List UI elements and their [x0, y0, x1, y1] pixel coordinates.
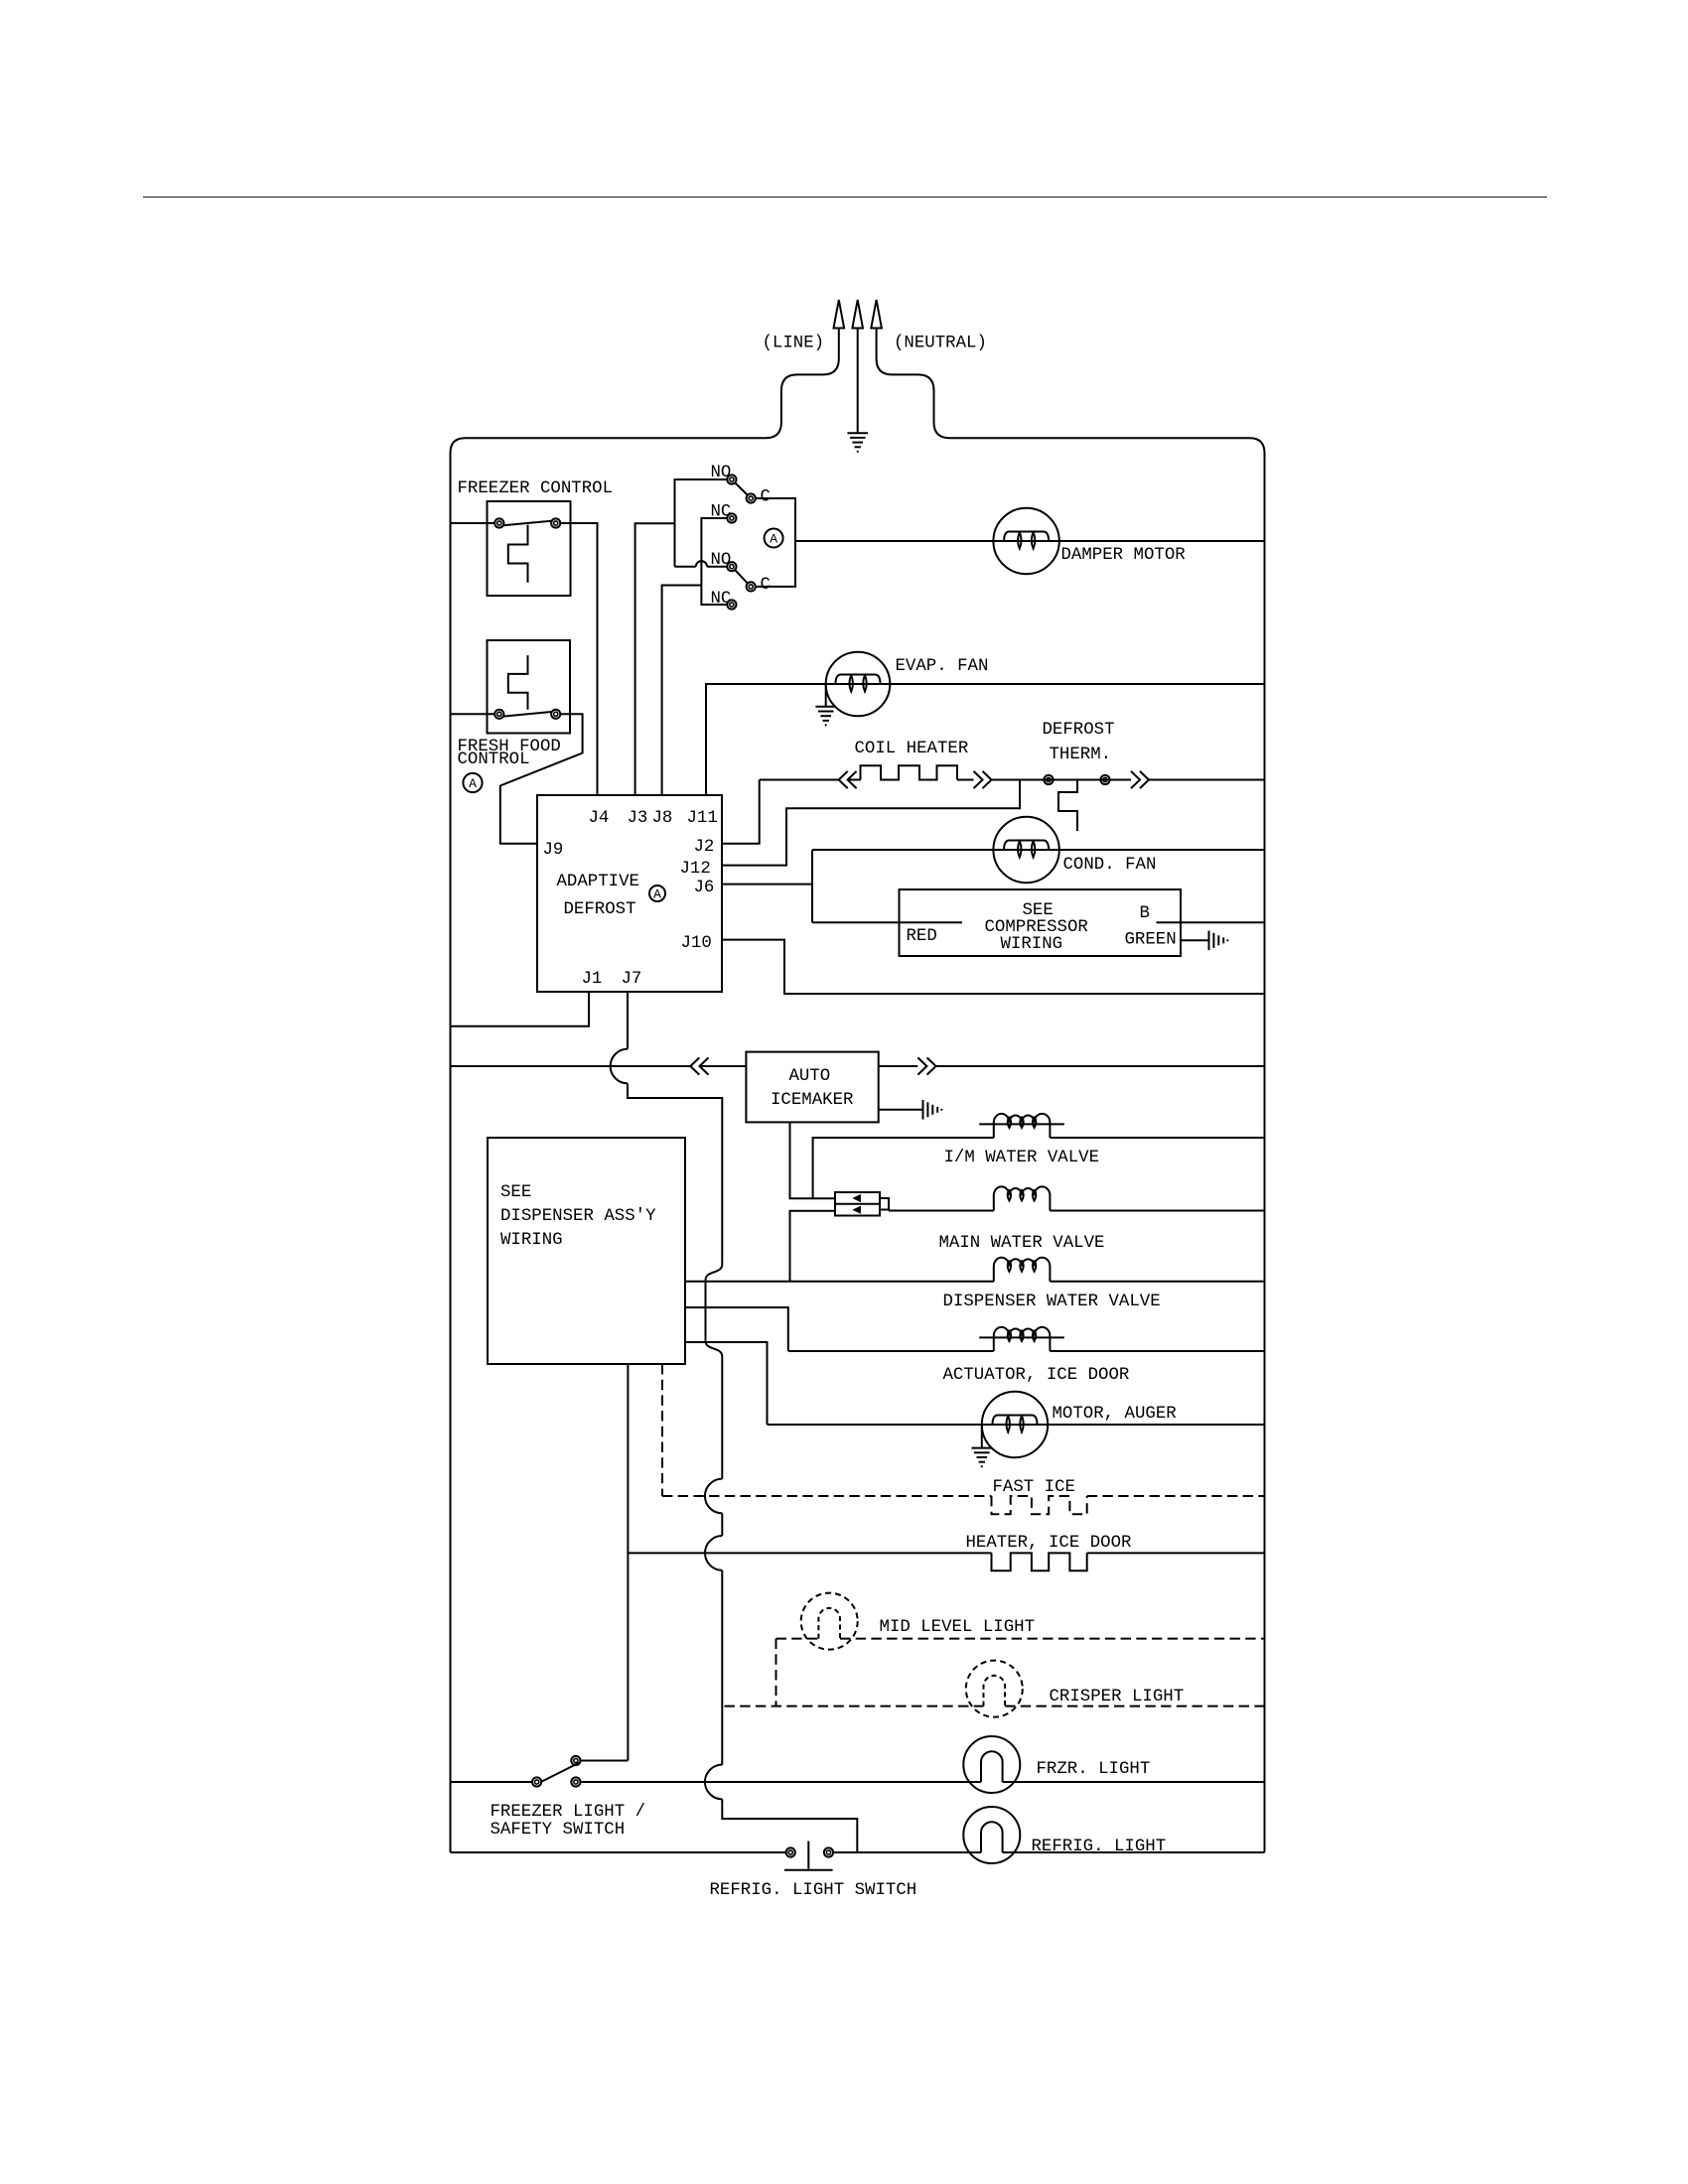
wire NO tie	[675, 479, 728, 567]
freezer control box	[488, 501, 571, 596]
wire fast ice drop dashed	[661, 1364, 663, 1496]
terminal freezer light switch upper	[571, 1756, 580, 1765]
wire J7 segment mid2	[721, 1513, 723, 1536]
svg-text:I/M WATER VALVE: I/M WATER VALVE	[944, 1149, 1100, 1167]
see dispenser assy wiring box	[488, 1138, 685, 1364]
switch blade 1	[735, 482, 748, 494]
svg-text:A: A	[653, 887, 661, 902]
fresh food control box	[488, 640, 571, 734]
terminal freezer light switch right	[571, 1777, 580, 1786]
wire actuator row	[788, 1350, 994, 1352]
wire J10 row	[722, 940, 1265, 994]
wire heater row segment 1	[760, 779, 839, 781]
wire cond fan row	[812, 849, 1265, 851]
ground chassis icemaker	[922, 1100, 924, 1120]
wire GREEN lead	[1181, 939, 1209, 941]
svg-text:COIL HEATER: COIL HEATER	[855, 740, 969, 758]
wire auger row	[768, 1424, 1265, 1426]
wire main valve row	[889, 1210, 994, 1212]
motor evap fan	[826, 652, 891, 717]
wire actuator row right	[1050, 1350, 1264, 1352]
wire mid level row dashed	[776, 1638, 819, 1640]
plug prong ground	[852, 300, 863, 329]
wire dispenser valve row	[685, 1281, 994, 1283]
wire NO2 stub left	[675, 566, 696, 568]
wire freezer control feed	[451, 522, 495, 524]
switch blade fresh food	[504, 712, 552, 717]
wire heater row segment 5	[1149, 779, 1265, 781]
wire auger feed	[685, 1342, 768, 1425]
ground evap fan stub	[825, 684, 827, 707]
svg-text:(NEUTRAL): (NEUTRAL)	[894, 335, 987, 353]
plug prong LINE	[834, 300, 845, 329]
terminal fresh food right	[551, 710, 560, 719]
svg-text:J7: J7	[622, 970, 642, 989]
svg-text:J9: J9	[543, 841, 564, 860]
terminal refrig light switch left	[786, 1847, 795, 1856]
terminal switch1 NC	[727, 513, 736, 522]
inductor dispenser water valve	[994, 1258, 1051, 1282]
svg-text:GREEN: GREEN	[1125, 931, 1177, 950]
terminal defrost therm right	[1100, 775, 1109, 784]
svg-text:ADAPTIVE: ADAPTIVE	[557, 873, 640, 891]
wire NO2 stub right	[707, 566, 727, 568]
wire hop J7 over icemaker row	[611, 1049, 628, 1084]
auto icemaker box	[746, 1052, 878, 1123]
svg-text:NC: NC	[711, 590, 732, 609]
lamp mid level light	[801, 1593, 858, 1650]
svg-text:MAIN WATER VALVE: MAIN WATER VALVE	[939, 1234, 1105, 1253]
svg-text:THERM.: THERM.	[1050, 746, 1112, 764]
svg-text:J10: J10	[681, 934, 712, 953]
wire refrig row left (bottom boundary)	[451, 1851, 786, 1853]
terminal freezer light switch left	[532, 1777, 541, 1786]
svg-text:(LINE): (LINE)	[763, 335, 825, 353]
wire NO tie to J3	[635, 523, 675, 795]
svg-text:J6: J6	[694, 879, 715, 897]
svg-text:C: C	[761, 576, 771, 595]
svg-text:DAMPER MOTOR: DAMPER MOTOR	[1061, 546, 1186, 565]
inductor actuator ice door	[994, 1327, 1051, 1351]
marker circle-A adaptive defrost	[649, 886, 665, 901]
switch blade freezer light	[542, 1763, 580, 1782]
wire freezer light row	[581, 1781, 982, 1783]
svg-text:J2: J2	[694, 838, 715, 857]
wire actuator feed	[685, 1307, 788, 1351]
svg-text:FAST ICE: FAST ICE	[993, 1478, 1076, 1497]
svg-text:REFRIG. LIGHT SWITCH: REFRIG. LIGHT SWITCH	[710, 1881, 917, 1900]
adaptive defrost control box	[537, 795, 722, 992]
lamp crisper light	[966, 1661, 1023, 1717]
svg-text:FRZR. LIGHT: FRZR. LIGHT	[1037, 1760, 1151, 1779]
check valve body	[835, 1192, 880, 1216]
ground chassis compressor green	[1208, 931, 1210, 951]
check valve arrow top	[852, 1194, 861, 1202]
svg-text:REFRIG. LIGHT: REFRIG. LIGHT	[1032, 1838, 1167, 1856]
wire fast ice row dashed	[662, 1495, 992, 1497]
wire fresh food to J9	[500, 714, 583, 844]
ground evap fan	[815, 706, 836, 708]
plug prong NEUTRAL	[871, 300, 882, 329]
connector arrows out >>	[974, 771, 983, 788]
wire J7 segment to jog	[628, 1083, 722, 1264]
svg-text:HEATER, ICE DOOR: HEATER, ICE DOOR	[966, 1534, 1132, 1553]
svg-text:A: A	[469, 776, 477, 791]
wire ice door heater right	[1087, 1552, 1265, 1554]
svg-text:DISPENSER WATER VALVE: DISPENSER WATER VALVE	[943, 1293, 1161, 1311]
terminal fresh food left	[494, 710, 503, 719]
connector arrows in <<	[839, 771, 848, 788]
wire hop J7 over fast ice row	[705, 1479, 722, 1514]
wire NC tie	[701, 518, 727, 605]
svg-text:WIRING: WIRING	[500, 1231, 563, 1250]
wire main row right	[1050, 1210, 1264, 1212]
wire damper motor row	[795, 540, 1265, 542]
wire freezer light row left	[451, 1781, 533, 1783]
svg-text:EVAP. FAN: EVAP. FAN	[896, 657, 989, 676]
wire fast ice row right dashed	[1087, 1495, 1265, 1497]
terminal defrost therm left	[1044, 775, 1053, 784]
terminal switch2 NO	[727, 562, 736, 571]
inductor main water valve	[994, 1186, 1051, 1210]
heater coil heater element	[861, 765, 958, 779]
svg-text:RED: RED	[907, 927, 937, 946]
wire ice door heater row	[628, 1552, 991, 1554]
svg-text:ICEMAKER: ICEMAKER	[771, 1091, 854, 1110]
wire J7 segment mid	[721, 1357, 723, 1479]
lamp refrig light	[963, 1807, 1020, 1863]
ground auger	[972, 1447, 993, 1449]
wire icemaker row to boundary	[936, 1065, 1265, 1067]
svg-text:NO: NO	[711, 551, 732, 570]
wire freezer light switch upper link	[581, 1760, 629, 1762]
defrost therm bracket	[1058, 780, 1077, 832]
wire I/M row right	[1050, 1137, 1264, 1139]
wire J2 riser	[722, 780, 760, 844]
wire mid-crisper link dashed	[775, 1639, 777, 1706]
terminal switch2 C	[747, 582, 756, 591]
wire heater row segment 2	[848, 779, 861, 781]
svg-text:MID LEVEL LIGHT: MID LEVEL LIGHT	[880, 1618, 1036, 1637]
svg-text:MOTOR, AUGER: MOTOR, AUGER	[1053, 1405, 1177, 1424]
marker circle-A fresh food	[463, 773, 482, 792]
wire dispenser box to safety switch	[627, 1364, 629, 1761]
svg-text:CONTROL: CONTROL	[458, 751, 530, 769]
wire J7 bow lower arc	[706, 1341, 723, 1357]
svg-text:SAFETY SWITCH: SAFETY SWITCH	[491, 1821, 626, 1840]
svg-text:WIRING: WIRING	[1001, 935, 1063, 954]
wire J7 segment lower	[722, 1799, 857, 1852]
wire icemaker to check valve	[790, 1122, 836, 1198]
terminal switch1 C	[747, 493, 756, 502]
connector arrows icemaker <<	[690, 1057, 699, 1074]
svg-text:FREEZER LIGHT /: FREEZER LIGHT /	[491, 1803, 646, 1822]
svg-text:A: A	[770, 532, 777, 547]
svg-text:DEFROST: DEFROST	[1043, 721, 1115, 740]
wire hop NO2 over NC tie	[696, 561, 707, 567]
heater ice door element	[992, 1553, 1087, 1570]
wire J6 stub	[722, 884, 812, 886]
wire check valve to dispenser row	[790, 1211, 836, 1282]
wire icemaker row right	[879, 1065, 918, 1067]
wire hop J7 over freezer light row	[705, 1765, 722, 1800]
switch blade freezer control	[504, 521, 552, 525]
inductor I/M water valve	[994, 1114, 1051, 1138]
ground plug earth	[847, 432, 868, 434]
wire refrig row right	[833, 1851, 981, 1853]
wire J11 to evap fan row	[706, 684, 1265, 795]
terminal freezer control left	[494, 518, 503, 527]
wire cond-red link	[811, 850, 813, 922]
svg-text:COND. FAN: COND. FAN	[1063, 856, 1157, 875]
svg-text:CRISPER LIGHT: CRISPER LIGHT	[1050, 1688, 1185, 1706]
terminal switch2 NC	[727, 600, 736, 609]
wire NC tie to J8	[662, 586, 702, 796]
wire J1 to boundary	[451, 992, 590, 1026]
thermostat element fresh food	[508, 655, 528, 710]
wire crisper row dashed	[725, 1706, 984, 1707]
svg-text:DEFROST: DEFROST	[564, 900, 636, 919]
wire J7 segment upper	[627, 992, 629, 1049]
wire icemaker row from boundary	[451, 1065, 691, 1067]
connector arrows therm >>	[1131, 771, 1140, 788]
svg-text:FREEZER CONTROL: FREEZER CONTROL	[458, 479, 614, 498]
wire J7 bow vertical	[705, 1280, 707, 1340]
lamp freezer light	[963, 1736, 1020, 1793]
svg-text:J8: J8	[652, 809, 673, 828]
wire outer boundary left/top (LINE entry)	[451, 329, 839, 1853]
svg-text:NO: NO	[711, 464, 732, 482]
compressor box	[900, 889, 1182, 956]
page top rule	[143, 197, 1547, 199]
wire heater row segment 4	[992, 779, 1132, 781]
terminal switch1 NO	[727, 475, 736, 483]
wire J12 to heater row	[722, 780, 1020, 866]
svg-text:J12: J12	[680, 860, 711, 879]
wire outer boundary right/top (NEUTRAL entry)	[877, 329, 1265, 1853]
svg-text:J11: J11	[687, 809, 718, 828]
svg-text:J1: J1	[582, 970, 603, 989]
switch fast ice element dashed	[992, 1496, 1087, 1514]
svg-text:J3: J3	[628, 809, 648, 828]
wire C1-C2 link box	[756, 498, 795, 587]
svg-text:AUTO: AUTO	[789, 1067, 831, 1086]
wire J7 bow upper arc	[706, 1265, 723, 1281]
ground auger stub	[981, 1425, 983, 1448]
switch blade 2	[735, 570, 748, 583]
switch refrig push button	[807, 1842, 809, 1869]
motor auger	[982, 1392, 1048, 1457]
wire RED lead	[812, 921, 962, 923]
svg-text:DISPENSER ASS'Y: DISPENSER ASS'Y	[500, 1207, 656, 1226]
wire I/M valve feed	[813, 1138, 994, 1198]
wire dispenser row right	[1050, 1281, 1264, 1283]
svg-text:SEE: SEE	[500, 1183, 531, 1202]
wire icemaker row segment	[700, 1065, 747, 1067]
wire fresh food feed	[451, 713, 495, 715]
svg-text:B: B	[1140, 904, 1150, 923]
wire J7 segment mid3	[721, 1570, 723, 1765]
wire plug ground lead	[857, 329, 859, 434]
wire hop J7 over ice-door heater row	[705, 1536, 722, 1570]
motor damper	[993, 508, 1058, 574]
svg-text:ACTUATOR, ICE DOOR: ACTUATOR, ICE DOOR	[943, 1366, 1130, 1385]
wire B lead	[1157, 921, 1265, 923]
wire icemaker ground lead	[879, 1109, 923, 1111]
marker circle-A defrost relay	[765, 529, 783, 548]
terminal refrig light switch right	[824, 1847, 833, 1856]
motor cond fan	[993, 817, 1058, 883]
check valve arrow bottom	[852, 1206, 861, 1214]
connector arrows icemaker >>	[917, 1057, 926, 1074]
wire freezer control to J4	[560, 523, 597, 795]
terminal freezer control right	[551, 518, 560, 527]
svg-text:J4: J4	[589, 809, 610, 828]
thermostat element freezer control	[508, 525, 528, 583]
wire heater row segment 3	[957, 779, 974, 781]
